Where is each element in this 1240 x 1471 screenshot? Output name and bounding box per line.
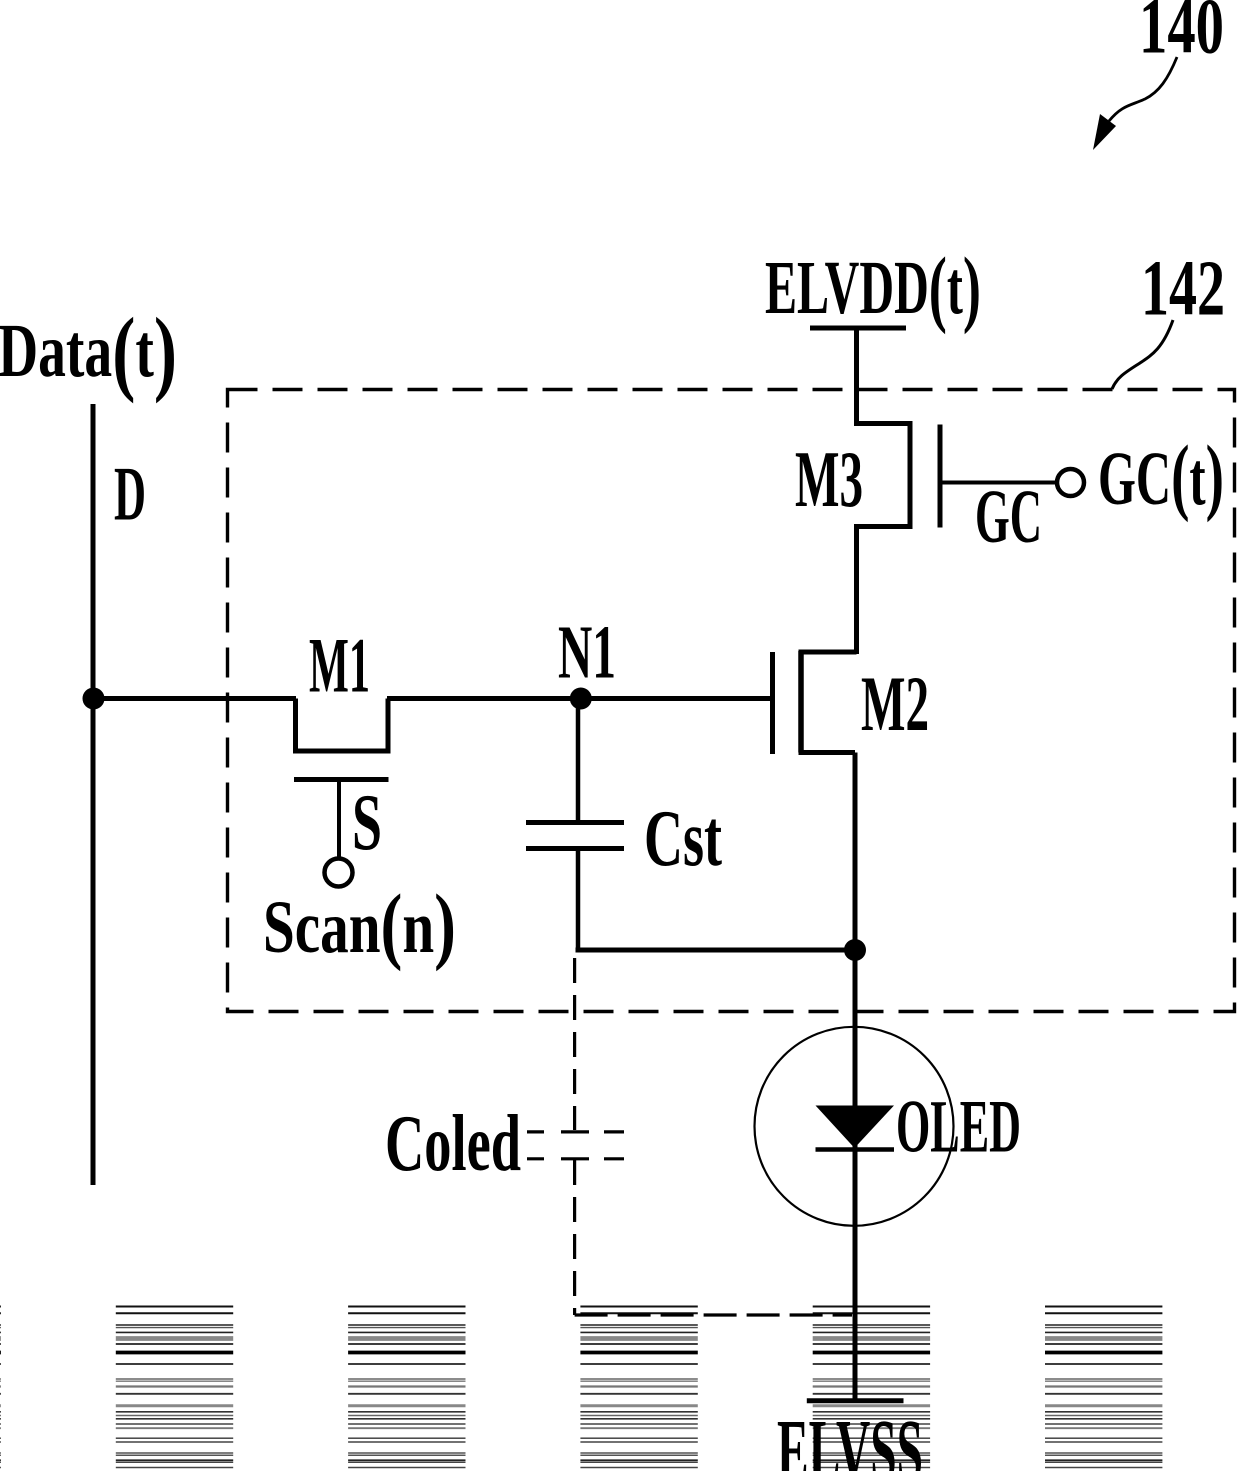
capacitor Cst plates <box>526 823 624 849</box>
pixel-row stripe block 3 <box>580 1307 697 1468</box>
svg-text:Cst: Cst <box>644 795 722 883</box>
ELVSS terminal bar <box>807 1398 904 1403</box>
OLED circle <box>755 1027 954 1226</box>
dashed box 142 (pixel circuit) <box>228 390 1235 1012</box>
svg-text:S: S <box>352 779 382 867</box>
leader line for 142 <box>1112 320 1173 389</box>
pixel-row stripe block 2 <box>348 1307 465 1468</box>
svg-text:ELVDD(t): ELVDD(t) <box>765 239 981 335</box>
svg-text:M2: M2 <box>861 660 929 747</box>
capacitor Coled plates (dashed) <box>527 1132 624 1159</box>
svg-text:OLED: OLED <box>896 1086 1021 1169</box>
wire ELVDD to M3 <box>854 328 859 426</box>
OLED diode triangle <box>816 1106 895 1149</box>
svg-text:D: D <box>114 451 146 537</box>
OLED diode cathode bar <box>816 1147 895 1152</box>
transistor M3 <box>857 424 941 528</box>
capacitor Cst wire from N1 <box>576 699 581 825</box>
wire M3 gate to GC terminal <box>940 481 1055 485</box>
pixel-row stripe block (partial, left edge) <box>0 1307 1 1468</box>
wire Cst to M2 source node <box>576 948 856 953</box>
pixel-row stripe block 4 <box>813 1307 930 1468</box>
capacitor Coled dashed lead (top) <box>573 958 576 1130</box>
junction dot <box>844 939 866 961</box>
svg-text:Scan(n): Scan(n) <box>263 876 456 972</box>
svg-text:M3: M3 <box>795 436 863 524</box>
svg-text:140: 140 <box>1139 0 1224 71</box>
main row wire (data to M1) <box>93 696 296 701</box>
data line D <box>91 404 96 1185</box>
wire M3 to M2 <box>854 524 859 654</box>
svg-text:N1: N1 <box>558 611 616 695</box>
GC terminal circle <box>1057 469 1084 496</box>
leader arrow for 140 <box>1093 57 1177 150</box>
wire M2 to OLED <box>853 753 858 1400</box>
capacitor Coled dashed lead (bottom) <box>573 1160 576 1315</box>
svg-text:Data(t): Data(t) <box>0 298 177 404</box>
dashed wire Coled to OLED cathode <box>575 1313 852 1316</box>
node N1 dot <box>570 688 592 710</box>
wire Cst bottom <box>576 849 581 951</box>
svg-text:Coled: Coled <box>385 1100 521 1188</box>
transistor M1 <box>294 699 389 858</box>
ELVDD terminal bar <box>810 326 906 331</box>
Scan terminal circle <box>325 859 353 887</box>
svg-text:GC(t): GC(t) <box>1098 427 1224 523</box>
svg-text:GC: GC <box>975 475 1042 559</box>
pixel-row stripe block 1 <box>116 1307 233 1468</box>
node dot on data line <box>83 688 105 710</box>
pixel-row stripe block 5 <box>1045 1307 1162 1468</box>
wire M1 to N1 to M2 gate <box>387 696 773 701</box>
svg-text:ELVSS: ELVSS <box>777 1402 923 1471</box>
svg-text:142: 142 <box>1141 246 1225 333</box>
transistor M2 <box>773 651 857 754</box>
svg-text:M1: M1 <box>309 622 370 709</box>
